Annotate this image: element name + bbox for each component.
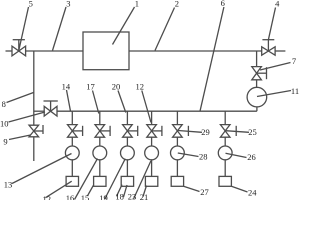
branch 6 pipe	[224, 111, 226, 124]
leader 25	[226, 131, 250, 133]
leader 2	[155, 8, 175, 51]
leader 15	[88, 186, 94, 196]
svg-text:2: 2	[175, 0, 179, 9]
wire manifold left segment	[34, 110, 44, 112]
branch 4 box	[145, 176, 157, 186]
svg-text:26: 26	[247, 152, 256, 162]
branch 2 wire valve to gauge	[99, 137, 101, 146]
branch 4 valve	[147, 125, 162, 138]
leader 27	[184, 186, 200, 191]
leader 18b	[124, 185, 128, 197]
svg-text:20: 20	[112, 82, 121, 92]
svg-text:5: 5	[29, 0, 33, 9]
leader 29	[178, 131, 202, 133]
svg-text:18: 18	[115, 191, 124, 200]
svg-text:25: 25	[248, 127, 257, 137]
leader 26	[226, 153, 247, 157]
svg-text:29: 29	[201, 127, 210, 137]
branch 3 box	[121, 176, 133, 186]
wire left downcomer	[33, 51, 35, 125]
pump 11 (circle)	[247, 87, 267, 107]
branch 1 wire gauge to box	[71, 160, 73, 177]
branch 3 valve	[123, 125, 138, 138]
valve 4	[262, 40, 275, 56]
branch 4 gauge circle	[145, 146, 159, 160]
wire manifold main segment	[57, 110, 257, 112]
leader 1	[113, 7, 135, 45]
svg-text:14: 14	[62, 81, 71, 91]
svg-text:11: 11	[291, 86, 299, 96]
leader 16	[75, 159, 98, 200]
branch 3 gauge circle	[121, 146, 135, 160]
svg-text:27: 27	[200, 187, 209, 197]
branch 2 valve	[95, 125, 110, 138]
leader 10	[9, 112, 46, 122]
branch 6 gauge circle 26	[218, 146, 232, 160]
tank U1 (rectangle 1)	[83, 32, 129, 70]
branch 6 wire valve to gauge	[224, 137, 226, 146]
leader 13	[12, 154, 72, 184]
wire pump11 to manifold	[256, 107, 258, 111]
leader 28	[178, 153, 199, 157]
wire main pipe left stub	[6, 50, 13, 52]
leader 5	[19, 7, 29, 50]
leader 23	[134, 161, 151, 199]
leader 12 top	[142, 91, 151, 123]
svg-text:15: 15	[81, 193, 90, 200]
leader 19	[105, 159, 126, 200]
svg-text:12: 12	[135, 82, 144, 92]
svg-text:8: 8	[2, 99, 6, 109]
branch 4 pipe	[151, 111, 153, 124]
valve 9	[29, 125, 43, 137]
leader 8	[7, 93, 34, 103]
branch 6 box 24	[219, 176, 231, 186]
leader 24	[231, 186, 247, 192]
branch 5 pipe	[176, 111, 178, 124]
leader 11	[257, 91, 291, 97]
svg-text:6: 6	[221, 0, 225, 8]
svg-text:9: 9	[3, 137, 7, 147]
valve 7	[252, 67, 267, 80]
wire main pipe valve5 to tank1	[26, 50, 83, 52]
branch 2 box	[94, 176, 106, 186]
svg-text:17: 17	[86, 82, 95, 92]
leader 21	[143, 186, 147, 197]
svg-text:19: 19	[99, 193, 108, 200]
valve 5	[12, 40, 26, 56]
svg-text:1: 1	[135, 0, 139, 9]
svg-text:7: 7	[292, 56, 296, 66]
svg-text:21: 21	[140, 192, 149, 200]
branch 1 valve	[68, 125, 83, 138]
branch 4 wire gauge to box	[151, 160, 153, 177]
branch 1 wire valve to gauge	[71, 137, 73, 146]
branch 5 gauge circle 28	[171, 146, 185, 160]
branch 2 pipe	[99, 111, 101, 124]
svg-text:12: 12	[43, 194, 52, 200]
leader 9	[9, 135, 31, 140]
leader 7	[260, 63, 291, 71]
leader 6	[200, 7, 224, 111]
branch 5 box 27	[171, 176, 183, 186]
branch 2 wire gauge to box	[99, 160, 101, 177]
branch 6 valve 25	[220, 125, 236, 138]
branch 1 pipe	[71, 111, 73, 124]
branch 1 gauge circle	[65, 146, 79, 160]
wire drain below valve 9	[33, 137, 35, 161]
branch 5 wire valve to gauge	[176, 137, 178, 146]
branch 2 gauge circle	[93, 146, 107, 160]
svg-text:13: 13	[4, 180, 13, 190]
leader 17	[93, 91, 99, 114]
svg-text:28: 28	[199, 152, 208, 162]
branch 1 box	[66, 176, 78, 186]
svg-text:23: 23	[128, 192, 137, 201]
branch 6 wire gauge to box	[224, 160, 226, 177]
leader 18a	[117, 185, 123, 197]
leader 4	[268, 8, 275, 40]
leader 12 bottom	[46, 181, 72, 198]
svg-text:16: 16	[66, 193, 75, 200]
leader 3	[53, 7, 67, 51]
svg-text:24: 24	[248, 188, 257, 198]
valve 10	[44, 101, 58, 116]
leader 14	[67, 90, 71, 111]
branch 4 wire valve to gauge	[151, 137, 153, 146]
branch 5 wire gauge to box	[176, 160, 178, 177]
wire valve7 to pump11	[256, 80, 258, 88]
branch 3 wire gauge to box	[126, 160, 128, 177]
branch 3 pipe	[126, 111, 128, 124]
wire main pipe right stub	[275, 50, 285, 52]
wire main pipe tank1 to valve4	[129, 50, 262, 52]
leader 20	[118, 91, 126, 113]
svg-text:4: 4	[275, 0, 280, 9]
svg-text:10: 10	[0, 119, 8, 129]
wire drop to valve 7	[256, 51, 258, 67]
branch 3 wire valve to gauge	[126, 137, 128, 146]
svg-text:3: 3	[66, 0, 70, 9]
branch 5 valve 29	[173, 125, 189, 138]
